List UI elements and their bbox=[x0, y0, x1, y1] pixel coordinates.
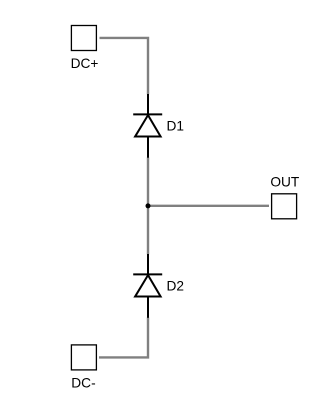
svg-text:OUT: OUT bbox=[270, 175, 300, 190]
diode D2 bbox=[133, 254, 162, 318]
wire D1 cathode to D2 anode (vertical through node) bbox=[147, 158, 149, 255]
terminal DC+ bbox=[71, 26, 96, 51]
svg-text:D1: D1 bbox=[167, 118, 185, 133]
svg-text:D2: D2 bbox=[167, 279, 185, 294]
node junction at OUT tap bbox=[146, 203, 151, 208]
wire DC+ terminal to D1 anode (top-right corner run) bbox=[100, 38, 149, 94]
terminal DC- bbox=[71, 345, 96, 370]
diode D1 bbox=[133, 94, 162, 158]
wire D2 cathode to DC- terminal (bottom corner run) bbox=[99, 318, 148, 358]
svg-text:DC+: DC+ bbox=[71, 56, 99, 71]
terminal OUT bbox=[272, 194, 297, 219]
wire node to OUT terminal bbox=[148, 205, 269, 207]
svg-text:DC-: DC- bbox=[71, 375, 95, 390]
